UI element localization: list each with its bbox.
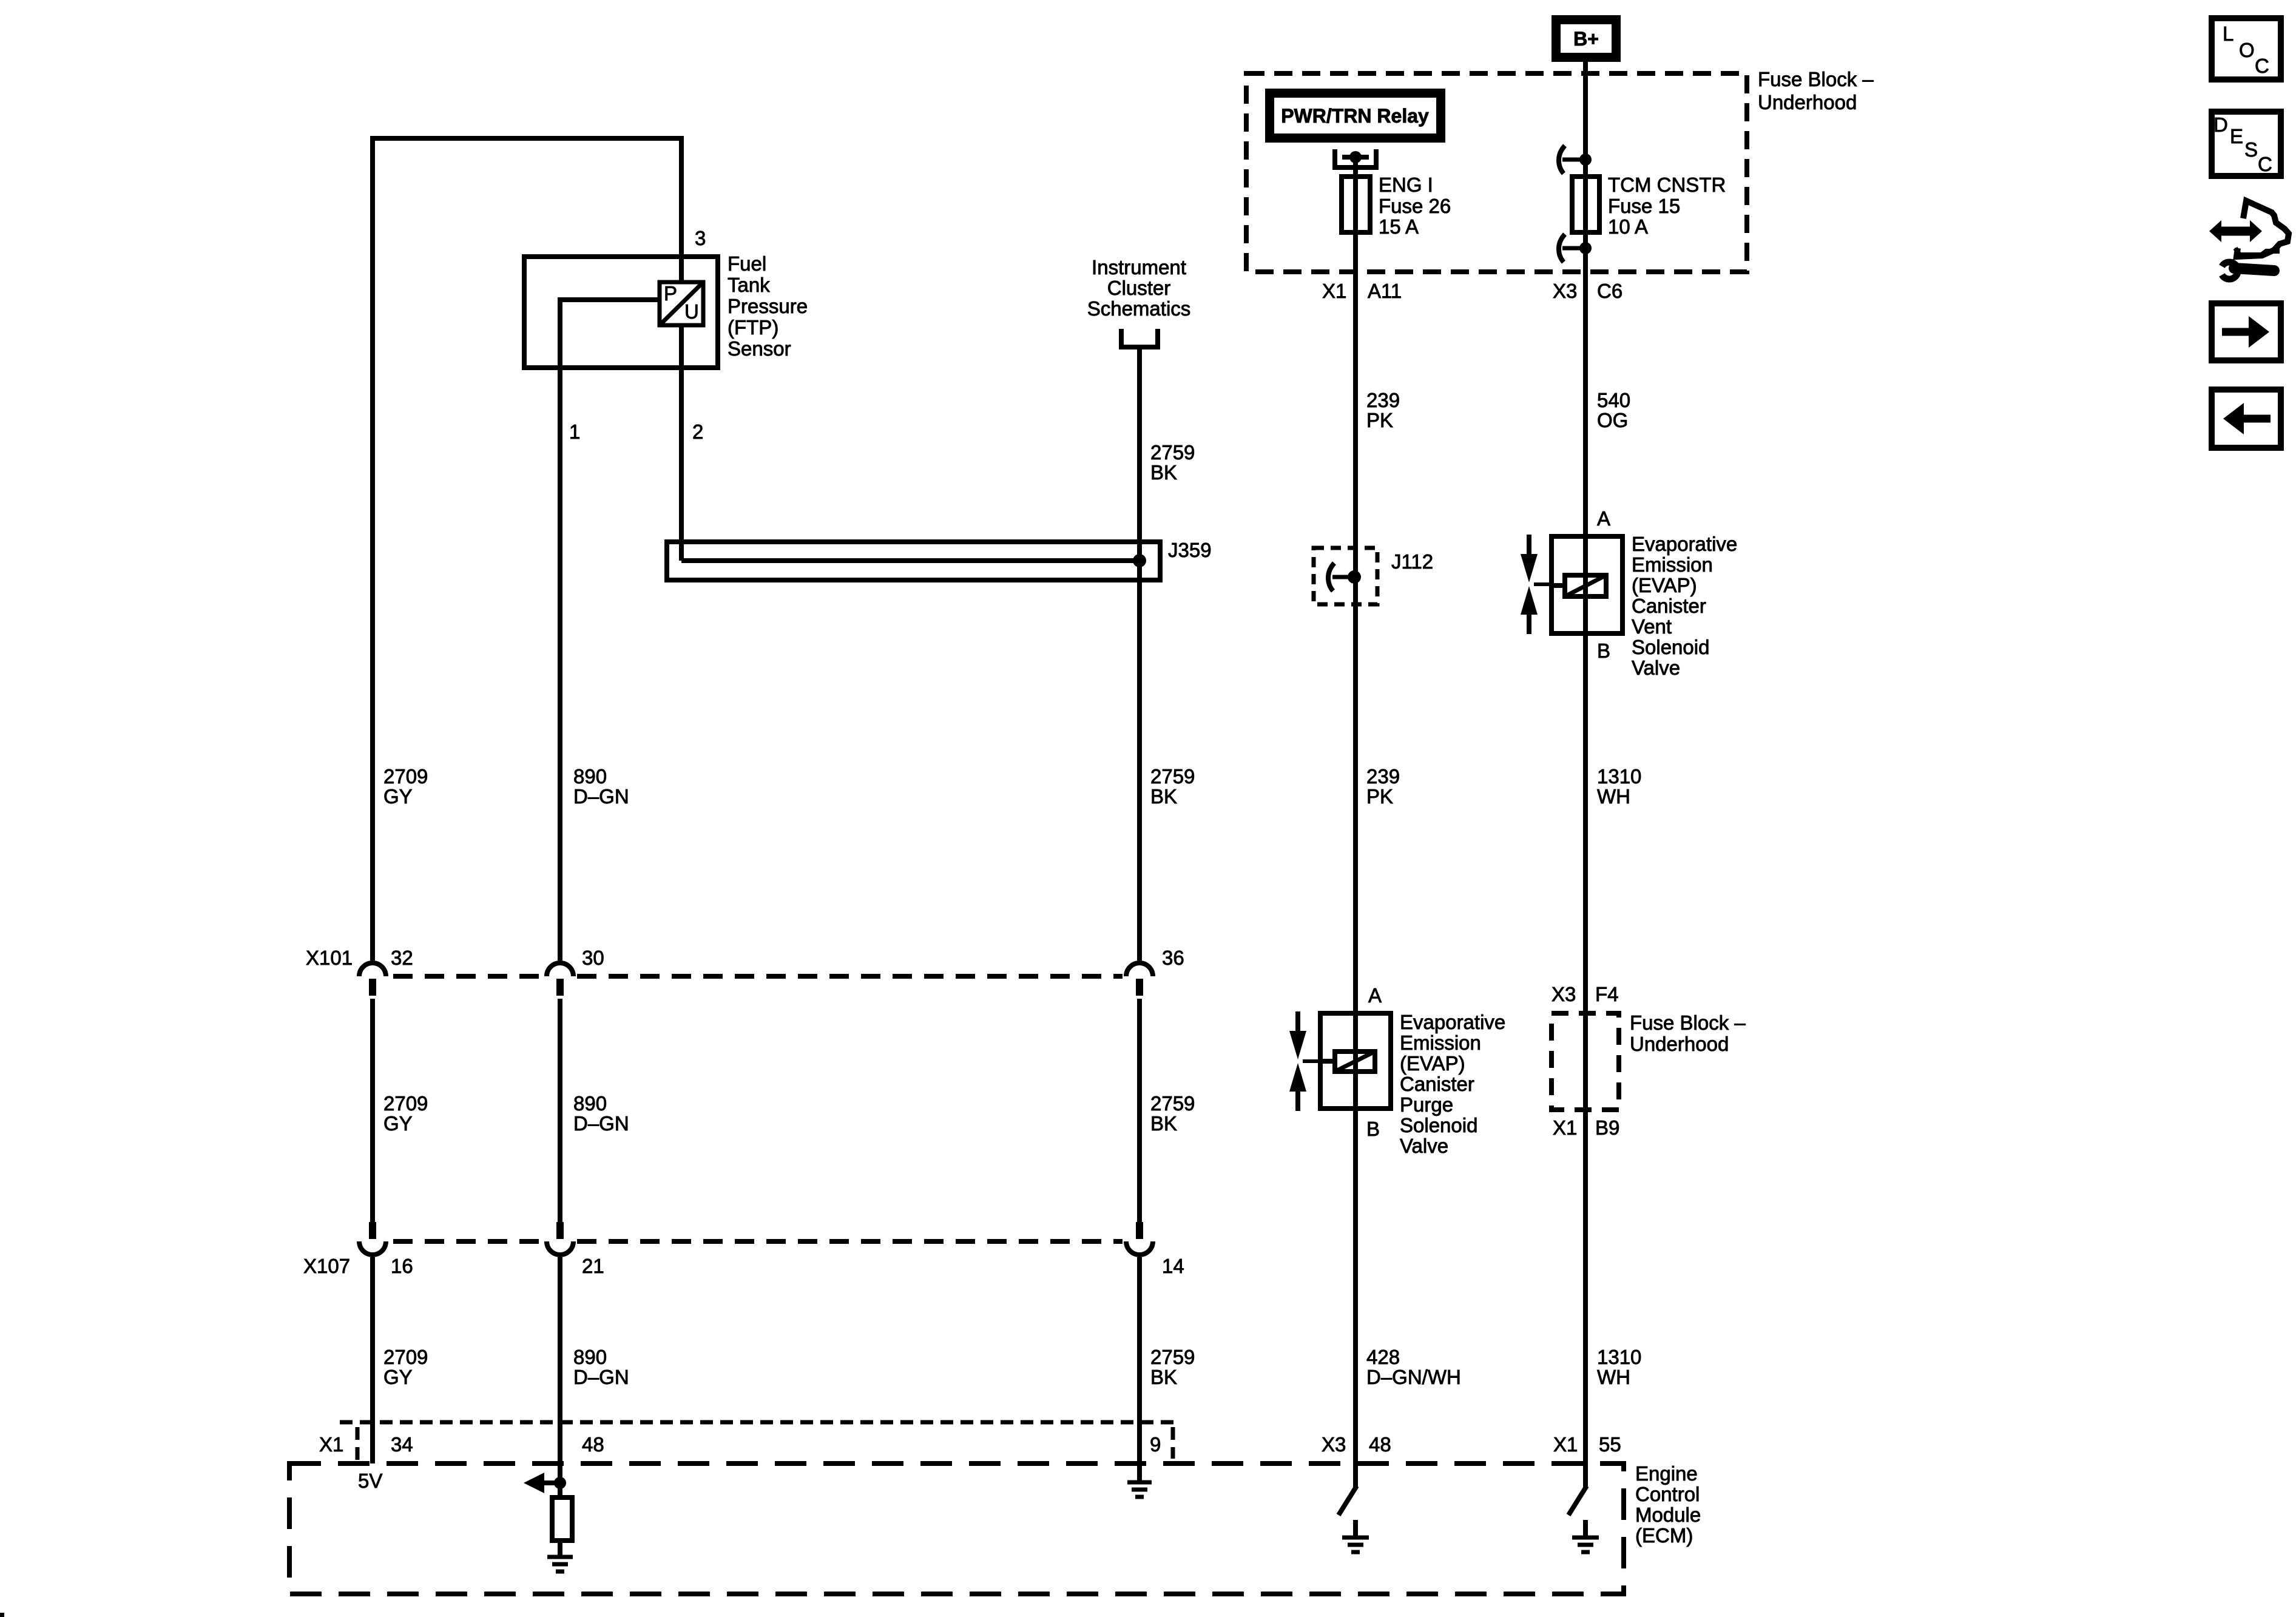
- svg-text:OG: OG: [1597, 409, 1628, 431]
- svg-text:X3: X3: [1322, 1433, 1346, 1456]
- svg-text:Control: Control: [1635, 1483, 1700, 1505]
- svg-text:E: E: [2230, 125, 2243, 147]
- svg-text:10 A: 10 A: [1608, 215, 1648, 238]
- svg-text:P: P: [664, 282, 677, 305]
- svg-text:14: 14: [1162, 1255, 1184, 1277]
- svg-text:Solenoid: Solenoid: [1400, 1114, 1477, 1136]
- svg-text:(ECM): (ECM): [1635, 1524, 1693, 1547]
- svg-text:S: S: [2244, 138, 2258, 161]
- svg-text:J359: J359: [1168, 539, 1212, 561]
- svg-text:239: 239: [1366, 389, 1400, 411]
- svg-text:Purge: Purge: [1400, 1093, 1453, 1116]
- svg-text:2709: 2709: [383, 1346, 428, 1368]
- svg-text:Engine: Engine: [1635, 1462, 1698, 1485]
- svg-text:Fuel: Fuel: [728, 252, 766, 275]
- svg-text:U: U: [684, 300, 699, 323]
- svg-text:B: B: [1366, 1118, 1380, 1140]
- svg-text:PWR/TRN Relay: PWR/TRN Relay: [1281, 105, 1429, 127]
- svg-text:BK: BK: [1150, 785, 1177, 808]
- svg-text:BK: BK: [1150, 1112, 1177, 1135]
- svg-text:36: 36: [1162, 947, 1184, 969]
- svg-text:2759: 2759: [1150, 1092, 1195, 1115]
- svg-text:B+: B+: [1573, 28, 1599, 50]
- svg-text:540: 540: [1597, 389, 1630, 411]
- svg-text:D–GN: D–GN: [573, 1366, 629, 1388]
- svg-text:Canister: Canister: [1400, 1073, 1474, 1095]
- svg-text:Fuse Block –: Fuse Block –: [1630, 1011, 1746, 1034]
- svg-text:X1: X1: [1553, 1433, 1578, 1456]
- svg-text:428: 428: [1366, 1346, 1400, 1368]
- svg-text:21: 21: [582, 1255, 604, 1277]
- svg-text:X107: X107: [303, 1255, 350, 1277]
- svg-text:48: 48: [1369, 1433, 1391, 1456]
- svg-text:1310: 1310: [1597, 765, 1641, 788]
- svg-text:X1: X1: [319, 1433, 343, 1456]
- svg-text:X1: X1: [1322, 280, 1346, 302]
- svg-text:3: 3: [695, 227, 706, 249]
- svg-text:Cluster: Cluster: [1107, 277, 1171, 299]
- svg-text:GY: GY: [383, 1112, 413, 1135]
- svg-text:GY: GY: [383, 1366, 413, 1388]
- svg-text:Valve: Valve: [1632, 657, 1680, 679]
- svg-text:BK: BK: [1150, 1366, 1177, 1388]
- svg-text:(FTP): (FTP): [728, 316, 778, 339]
- svg-text:Module: Module: [1635, 1504, 1701, 1526]
- svg-text:D–GN/WH: D–GN/WH: [1366, 1366, 1461, 1388]
- svg-text:(EVAP): (EVAP): [1400, 1052, 1465, 1075]
- svg-text:PK: PK: [1366, 409, 1393, 431]
- svg-text:Underhood: Underhood: [1758, 91, 1857, 113]
- svg-text:X3: X3: [1553, 280, 1577, 302]
- svg-text:2759: 2759: [1150, 765, 1195, 788]
- svg-text:1: 1: [569, 420, 580, 443]
- svg-text:D–GN: D–GN: [573, 1112, 629, 1135]
- svg-text:WH: WH: [1597, 785, 1630, 808]
- svg-text:Tank: Tank: [728, 274, 770, 296]
- svg-text:1310: 1310: [1597, 1346, 1641, 1368]
- svg-text:GY: GY: [383, 785, 413, 808]
- svg-text:890: 890: [573, 1092, 607, 1115]
- svg-text:Emission: Emission: [1632, 553, 1713, 576]
- svg-text:C: C: [2255, 55, 2269, 77]
- svg-text:J112: J112: [1391, 550, 1433, 573]
- svg-text:2759: 2759: [1150, 1346, 1195, 1368]
- svg-text:Sensor: Sensor: [728, 337, 791, 360]
- svg-text:Pressure: Pressure: [728, 295, 808, 317]
- svg-text:Emission: Emission: [1400, 1031, 1481, 1054]
- svg-text:WH: WH: [1597, 1366, 1630, 1388]
- svg-text:48: 48: [582, 1433, 604, 1456]
- svg-text:A: A: [1368, 984, 1382, 1007]
- svg-text:Vent: Vent: [1632, 615, 1672, 638]
- svg-text:890: 890: [573, 1346, 607, 1368]
- svg-text:B: B: [1597, 640, 1610, 662]
- svg-text:F4: F4: [1595, 983, 1619, 1005]
- svg-text:Fuse 15: Fuse 15: [1608, 195, 1680, 217]
- svg-text:Fuse 26: Fuse 26: [1379, 195, 1451, 217]
- svg-text:BK: BK: [1150, 461, 1177, 484]
- svg-text:15 A: 15 A: [1379, 215, 1419, 238]
- svg-text:239: 239: [1366, 765, 1400, 788]
- svg-text:Instrument: Instrument: [1092, 256, 1186, 279]
- svg-text:X101: X101: [306, 947, 353, 969]
- svg-text:5V: 5V: [358, 1470, 382, 1492]
- svg-text:Fuse Block –: Fuse Block –: [1758, 68, 1874, 90]
- svg-text:2709: 2709: [383, 765, 428, 788]
- svg-text:B9: B9: [1595, 1116, 1619, 1139]
- svg-text:890: 890: [573, 765, 607, 788]
- svg-text:Schematics: Schematics: [1087, 297, 1191, 320]
- svg-text:55: 55: [1599, 1433, 1621, 1456]
- svg-text:(EVAP): (EVAP): [1632, 574, 1697, 596]
- svg-text:L: L: [2223, 22, 2234, 45]
- svg-text:D: D: [2213, 113, 2228, 136]
- svg-text:PK: PK: [1366, 785, 1393, 808]
- svg-text:34: 34: [391, 1433, 413, 1456]
- svg-text:30: 30: [582, 947, 604, 969]
- svg-text:Valve: Valve: [1400, 1135, 1448, 1157]
- svg-text:2759: 2759: [1150, 441, 1195, 464]
- svg-text:X1: X1: [1553, 1116, 1577, 1139]
- svg-text:A11: A11: [1368, 280, 1402, 302]
- svg-text:2: 2: [692, 420, 703, 443]
- svg-text:X3: X3: [1551, 983, 1576, 1005]
- svg-text:TCM CNSTR: TCM CNSTR: [1608, 174, 1726, 196]
- svg-text:16: 16: [391, 1255, 413, 1277]
- svg-text:Evaporative: Evaporative: [1632, 533, 1737, 555]
- svg-text:O: O: [2239, 39, 2255, 61]
- svg-text:A: A: [1597, 507, 1610, 530]
- svg-text:Evaporative: Evaporative: [1400, 1011, 1505, 1033]
- svg-text:Underhood: Underhood: [1630, 1033, 1729, 1055]
- svg-text:ENG I: ENG I: [1379, 174, 1433, 196]
- svg-text:C: C: [2258, 153, 2272, 175]
- svg-text:9: 9: [1150, 1433, 1161, 1456]
- svg-text:32: 32: [391, 947, 413, 969]
- svg-text:Canister: Canister: [1632, 595, 1706, 617]
- svg-text:2709: 2709: [383, 1092, 428, 1115]
- svg-text:C6: C6: [1597, 280, 1622, 302]
- svg-text:D–GN: D–GN: [573, 785, 629, 808]
- svg-text:Solenoid: Solenoid: [1632, 636, 1709, 658]
